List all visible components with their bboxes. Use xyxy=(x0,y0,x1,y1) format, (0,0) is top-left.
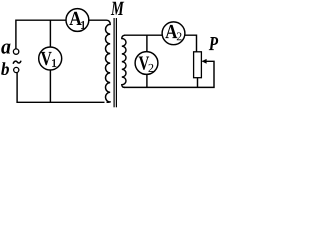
wire: secondary top wire to rheostat xyxy=(124,35,197,52)
label P xyxy=(209,37,218,50)
terminal a xyxy=(13,49,18,54)
transformer core (double line) xyxy=(113,18,115,107)
label M xyxy=(111,2,124,15)
ammeter A1 xyxy=(66,9,89,32)
rheostat wiper arrowhead xyxy=(202,59,207,64)
wire: V2 branch vertical xyxy=(146,35,148,87)
wire: primary top wire with left corner down to terminal a xyxy=(16,20,107,48)
transformer secondary coil xyxy=(122,35,126,87)
voltmeter V1 xyxy=(39,47,62,70)
rheostat P box xyxy=(194,52,202,78)
wire: rheostat bottom leg xyxy=(197,78,199,88)
voltmeter V2 xyxy=(135,52,158,75)
ammeter A2 xyxy=(162,22,185,45)
label a xyxy=(1,43,10,53)
terminal b xyxy=(14,67,19,72)
AC tilde xyxy=(13,61,21,64)
wire: secondary bottom wire, up right side to wiper arrow xyxy=(124,61,214,87)
transformer primary coil xyxy=(105,20,110,102)
wire: V1 branch vertical xyxy=(49,20,51,102)
label b xyxy=(1,62,9,75)
wire: terminal b leg and primary bottom wire xyxy=(17,73,104,103)
